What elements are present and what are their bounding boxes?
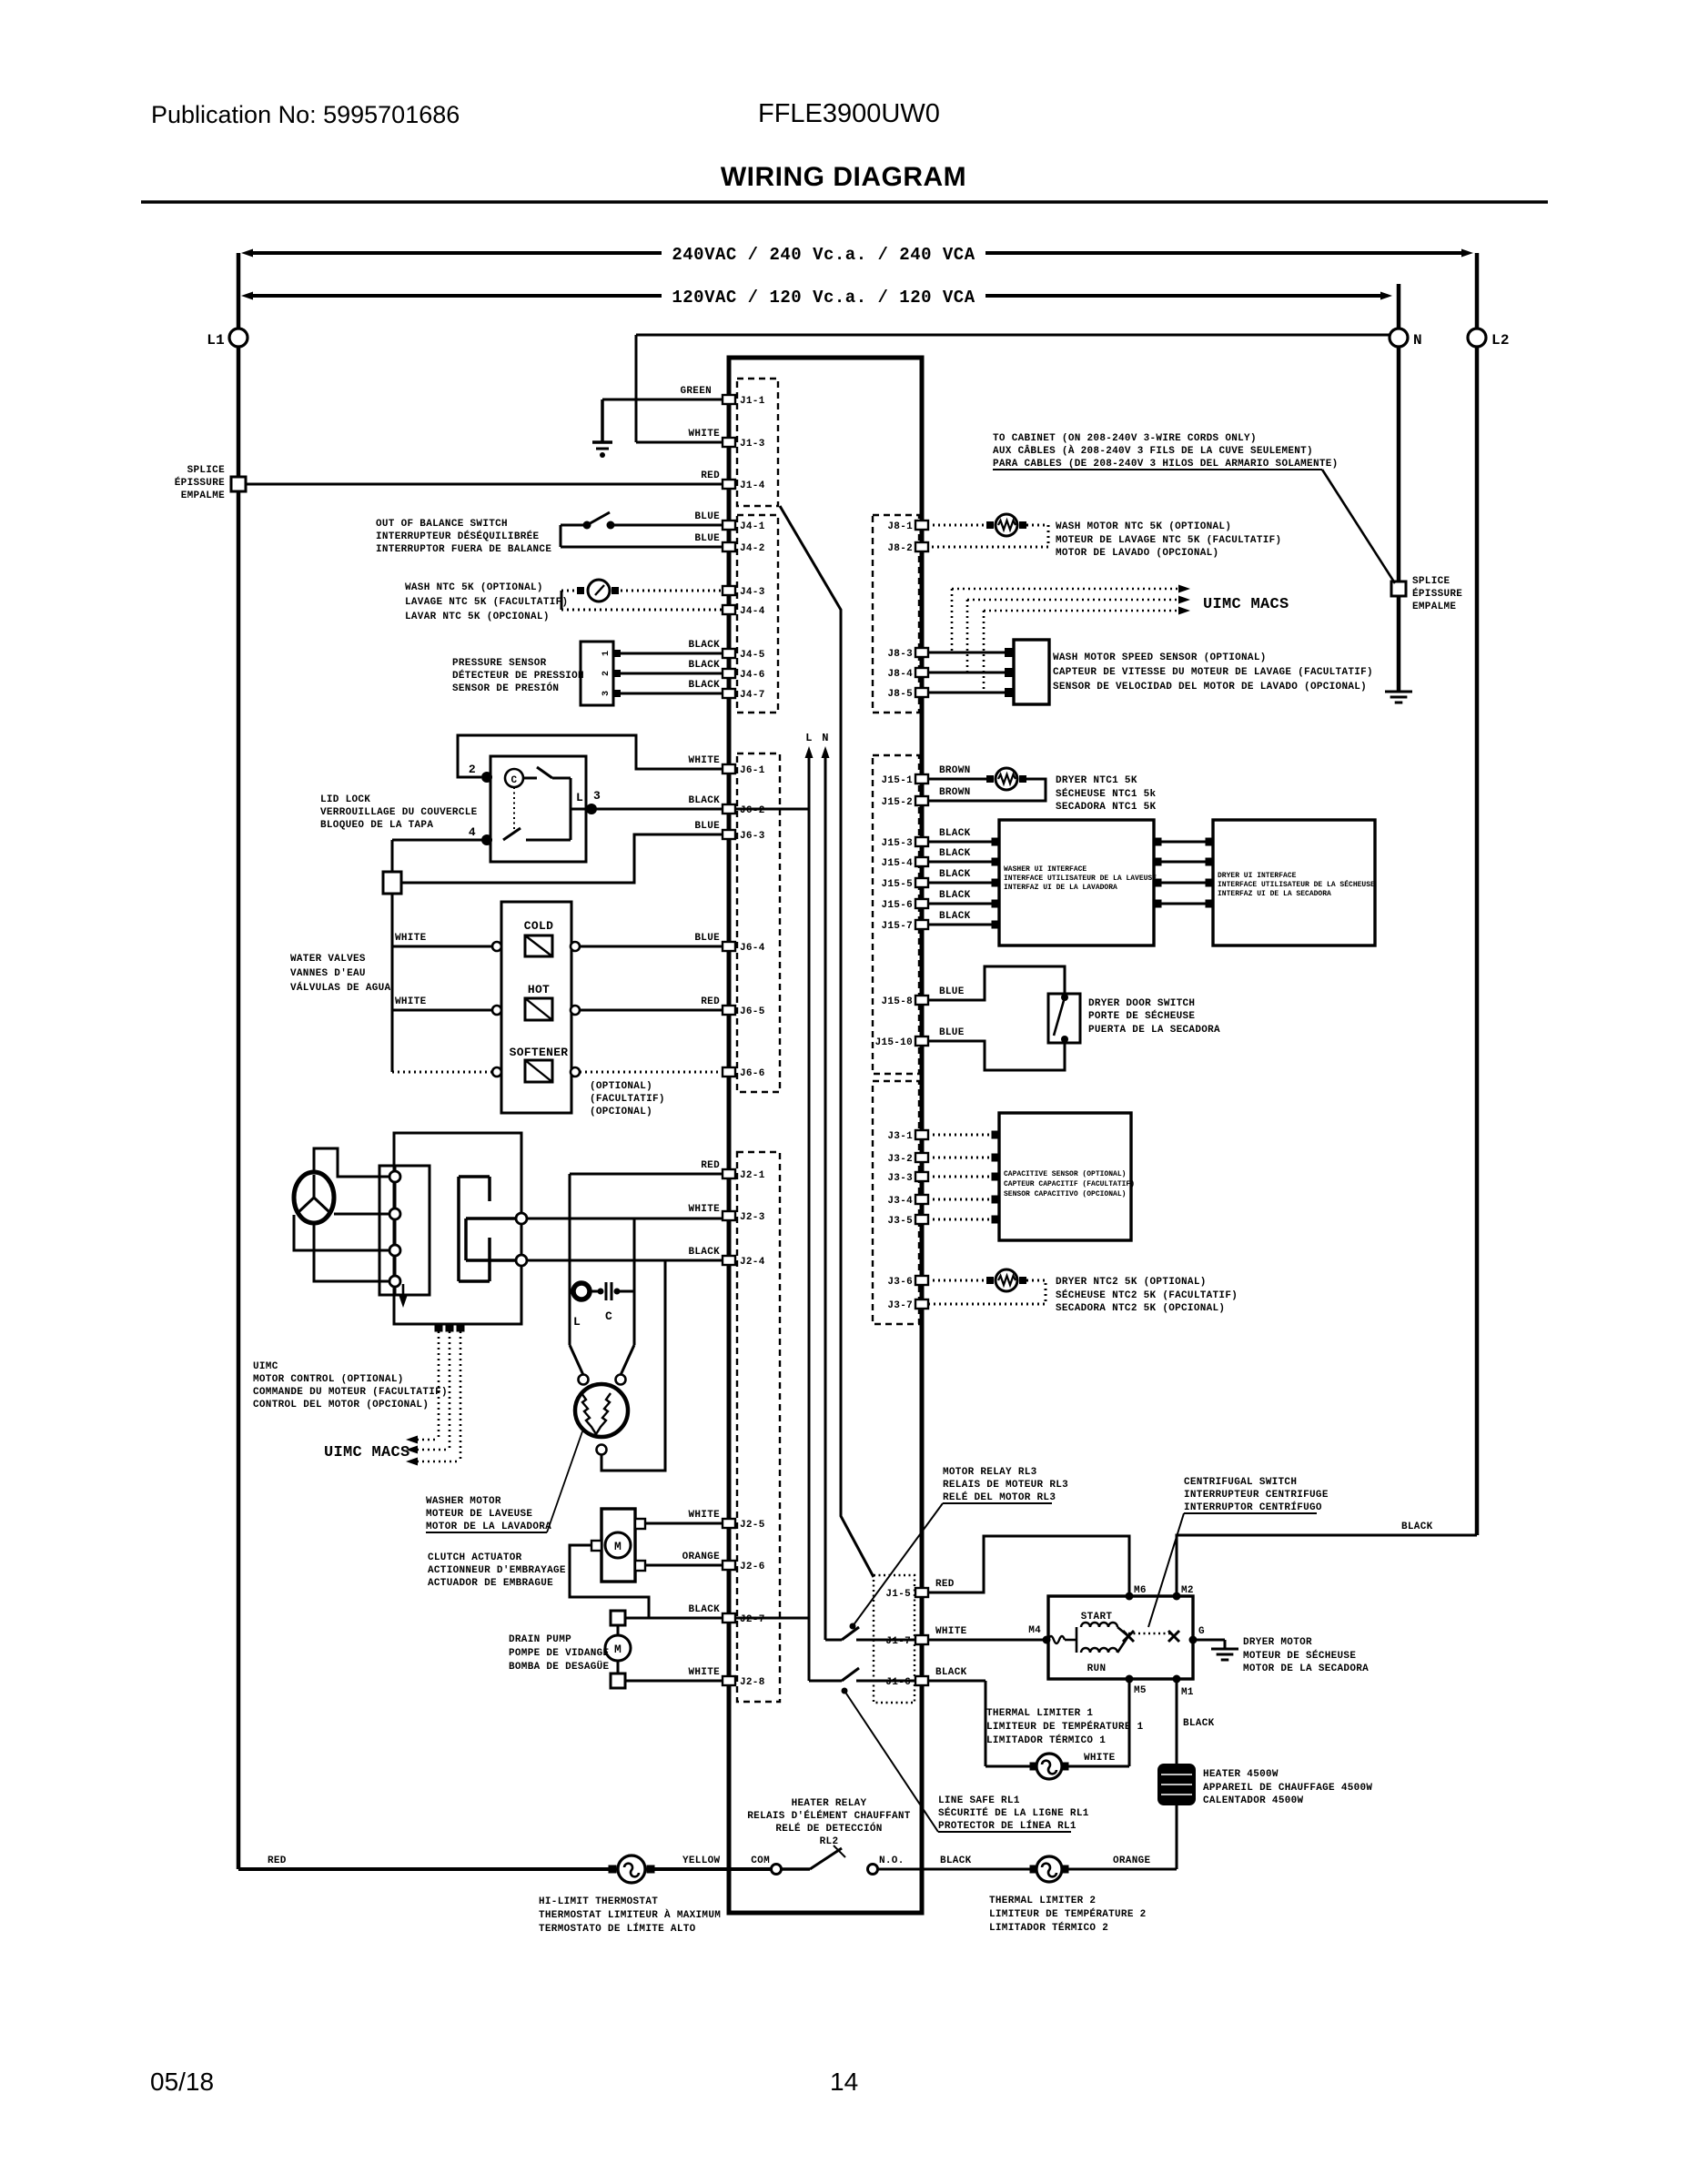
pin J8-2 (915, 542, 928, 551)
svg-text:SECADORA NTC2 5K (OPCIONAL): SECADORA NTC2 5K (OPCIONAL) (1056, 1303, 1225, 1314)
svg-text:WHITE: WHITE (395, 933, 427, 944)
svg-text:INTERRUPTOR CENTRÍFUGO: INTERRUPTOR CENTRÍFUGO (1184, 1501, 1322, 1513)
svg-text:BLACK: BLACK (688, 680, 720, 691)
svg-text:DÉTECTEUR DE PRESSION: DÉTECTEUR DE PRESSION (452, 669, 584, 682)
svg-text:MOTOR DE LA LAVADORA: MOTOR DE LA LAVADORA (426, 1522, 551, 1532)
svg-text:THERMOSTAT LIMITEUR À MAXIMUM: THERMOSTAT LIMITEUR À MAXIMUM (539, 1908, 721, 1921)
svg-text:WHITE: WHITE (688, 429, 720, 440)
svg-text:2: 2 (469, 763, 476, 776)
connector J1 box (737, 379, 778, 506)
connector J3 box (873, 1081, 919, 1324)
svg-text:TERMOSTATO DE LÍMITE ALTO: TERMOSTATO DE LÍMITE ALTO (539, 1922, 696, 1935)
svg-text:J6-5: J6-5 (740, 1006, 765, 1017)
hi-limit thermostat (609, 1865, 617, 1874)
svg-text:TO CABINET (ON 208-240V 3-WIRE: TO CABINET (ON 208-240V 3-WIRE CORDS ONL… (993, 433, 1257, 444)
connector J2 box (737, 1152, 780, 1702)
svg-text:M: M (614, 1643, 622, 1656)
svg-text:PRESSURE SENSOR: PRESSURE SENSOR (452, 658, 547, 669)
svg-text:ORANGE: ORANGE (682, 1552, 721, 1562)
splice square on L1 rail (231, 477, 246, 491)
svg-text:MOTOR RELAY RL3: MOTOR RELAY RL3 (943, 1467, 1037, 1478)
wire RED J2-1 (570, 1173, 723, 1176)
node N line (824, 755, 827, 1640)
svg-text:DRYER DOOR SWITCH: DRYER DOOR SWITCH (1088, 998, 1195, 1009)
svg-text:INTERRUPTOR FUERA DE BALANCE: INTERRUPTOR FUERA DE BALANCE (376, 544, 551, 555)
lid lock terminal 4 (481, 834, 492, 845)
svg-text:PUERTA DE LA SECADORA: PUERTA DE LA SECADORA (1088, 1025, 1220, 1036)
pin J1-7 (915, 1635, 928, 1644)
pin J6-3 (723, 830, 735, 839)
svg-text:MOTOR CONTROL (OPTIONAL): MOTOR CONTROL (OPTIONAL) (253, 1374, 404, 1385)
svg-text:BLUE: BLUE (694, 533, 720, 544)
dryer UI interface box (1213, 820, 1375, 945)
pin J2-8 (723, 1676, 735, 1685)
washer UI interface box (999, 820, 1154, 945)
svg-text:HOT: HOT (528, 983, 550, 996)
svg-text:J1-3: J1-3 (740, 439, 765, 450)
svg-text:BLACK: BLACK (688, 640, 720, 651)
pin J4-2 (723, 542, 735, 551)
svg-text:START: START (1081, 1612, 1113, 1623)
pin J8-4 (915, 668, 928, 677)
svg-text:BLUE: BLUE (694, 933, 720, 944)
svg-text:BLACK: BLACK (940, 1855, 972, 1866)
svg-text:J2-7: J2-7 (740, 1614, 765, 1625)
svg-text:CENTRIFUGAL SWITCH: CENTRIFUGAL SWITCH (1184, 1477, 1297, 1488)
svg-text:PARA CABLES (DE 208-240V 3 HIL: PARA CABLES (DE 208-240V 3 HILOS DEL ARM… (993, 459, 1339, 470)
svg-text:J3-4: J3-4 (887, 1196, 913, 1207)
connector J15 box (873, 755, 919, 1074)
svg-text:WHITE: WHITE (395, 996, 427, 1007)
svg-text:UIMC MACS: UIMC MACS (1203, 596, 1289, 613)
pin J2-7 (723, 1613, 735, 1623)
wire BLUE J15-10 (927, 1041, 1065, 1070)
wire BLACK J1-6 (927, 1680, 986, 1683)
svg-text:J15-3: J15-3 (881, 838, 913, 849)
pin J2-4 (723, 1256, 735, 1265)
washer motor feed right (633, 1218, 636, 1345)
wire to cabinet splice (1322, 470, 1395, 583)
svg-text:RELÉ DEL MOTOR RL3: RELÉ DEL MOTOR RL3 (943, 1491, 1056, 1503)
svg-text:J2-4: J2-4 (740, 1257, 765, 1268)
svg-text:DRYER MOTOR: DRYER MOTOR (1243, 1637, 1312, 1648)
wire M1 down to heater (1176, 1679, 1178, 1764)
connector J8 box (873, 515, 919, 713)
svg-text:BLACK: BLACK (1401, 1522, 1433, 1532)
splice square on N rail (1391, 581, 1406, 596)
svg-text:APPAREIL DE CHAUFFAGE 4500W: APPAREIL DE CHAUFFAGE 4500W (1203, 1783, 1372, 1794)
pin J15-8 (915, 996, 928, 1005)
svg-text:J8-4: J8-4 (887, 669, 913, 680)
svg-text:PORTE DE SÉCHEUSE: PORTE DE SÉCHEUSE (1088, 1009, 1195, 1022)
splice square lid lock (383, 872, 401, 894)
pin J3-3 (915, 1172, 928, 1181)
wash NTC thermistor (588, 580, 610, 602)
svg-text:J4-1: J4-1 (740, 521, 765, 532)
thermal limiter 2 (1030, 1865, 1038, 1874)
pin J6-6 (723, 1067, 735, 1077)
connector J1 right box (874, 1575, 915, 1703)
ground at N rail bottom (1385, 691, 1412, 693)
svg-text:J4-2: J4-2 (740, 543, 765, 554)
wire WHITE J1-7 to M4 (927, 1639, 1046, 1642)
svg-text:WHITE: WHITE (688, 755, 720, 766)
svg-text:1: 1 (601, 651, 612, 656)
wires J3-1..5 to capacitive sensor (927, 1134, 996, 1137)
pin J15-5 (915, 878, 928, 887)
pin J6-4 (723, 942, 735, 951)
pin J4-7 (723, 689, 735, 698)
svg-text:HEATER RELAY: HEATER RELAY (792, 1798, 867, 1809)
svg-text:SENSOR DE VELOCIDAD DEL MOTOR: SENSOR DE VELOCIDAD DEL MOTOR DE LAVADO … (1053, 682, 1367, 693)
water valves feed vertical (391, 840, 394, 872)
wire WHITE J2-3 (527, 1218, 723, 1220)
svg-text:ÉPISSURE: ÉPISSURE (175, 476, 225, 489)
title rule line (141, 200, 1548, 204)
wire washer motor to J2-4 (601, 1260, 665, 1471)
svg-text:BLACK: BLACK (939, 848, 971, 859)
motor hand symbol (294, 1172, 334, 1223)
svg-text:J8-5: J8-5 (887, 689, 913, 700)
svg-text:BROWN: BROWN (939, 787, 971, 798)
svg-text:UIMC MACS: UIMC MACS (324, 1444, 410, 1461)
svg-text:INTERFAZ UI DE LA SECADORA: INTERFAZ UI DE LA SECADORA (1218, 890, 1331, 898)
svg-text:3: 3 (601, 691, 612, 696)
pin J3-2 (915, 1153, 928, 1162)
svg-text:L: L (805, 732, 813, 744)
wire RED J1-5 to M6 (927, 1536, 1129, 1596)
svg-text:LIMITADOR TÉRMICO 1: LIMITADOR TÉRMICO 1 (986, 1734, 1106, 1746)
svg-text:J3-7: J3-7 (887, 1300, 913, 1311)
svg-text:PROTECTOR DE LÍNEA RL1: PROTECTOR DE LÍNEA RL1 (938, 1819, 1076, 1832)
lid lock top contact (523, 777, 537, 780)
pin J4-5 (723, 649, 735, 658)
svg-text:RELAIS DE MOTEUR RL3: RELAIS DE MOTEUR RL3 (943, 1480, 1068, 1491)
lid lock solenoid C (505, 769, 523, 787)
svg-text:RED: RED (935, 1579, 955, 1590)
svg-text:J15-8: J15-8 (881, 996, 913, 1007)
pin J15-10 (915, 1036, 928, 1046)
svg-text:VANNES D'EAU: VANNES D'EAU (290, 968, 366, 979)
washer motor (579, 1375, 589, 1385)
svg-text:SÉCHEUSE NTC1 5k: SÉCHEUSE NTC1 5k (1056, 787, 1157, 800)
terminal circle L1 (229, 329, 248, 347)
svg-text:INTERFAZ UI DE LA LAVADORA: INTERFAZ UI DE LA LAVADORA (1004, 884, 1117, 892)
connector J6 box (737, 753, 780, 1092)
wire BLACK J2-7 (625, 1617, 723, 1620)
svg-text:L1: L1 (207, 332, 225, 349)
capacitor C (598, 1289, 604, 1295)
svg-text:RELAIS D'ÉLÉMENT CHAUFFANT: RELAIS D'ÉLÉMENT CHAUFFANT (747, 1809, 911, 1822)
pin J1-6 (915, 1676, 928, 1685)
svg-text:240VAC / 240 Vc.a. / 240 VCA: 240VAC / 240 Vc.a. / 240 VCA (672, 245, 975, 265)
wire GREEN J1-1 (602, 399, 723, 401)
lid lock terminal 2 (481, 772, 492, 783)
svg-text:J1-7: J1-7 (885, 1636, 911, 1647)
bottom bus wire RED (238, 1867, 616, 1871)
svg-text:G: G (1198, 1626, 1205, 1637)
wire M5 down (1128, 1679, 1131, 1766)
svg-text:WASH NTC 5K (OPTIONAL): WASH NTC 5K (OPTIONAL) (405, 582, 543, 593)
svg-text:J8-3: J8-3 (887, 649, 913, 660)
svg-text:BLACK: BLACK (688, 1604, 720, 1615)
svg-text:J3-3: J3-3 (887, 1173, 913, 1184)
svg-text:MOTOR DE LA SECADORA: MOTOR DE LA SECADORA (1243, 1663, 1369, 1674)
svg-text:WASH MOTOR SPEED SENSOR (OPTIO: WASH MOTOR SPEED SENSOR (OPTIONAL) (1053, 652, 1267, 663)
svg-text:HEATER 4500W: HEATER 4500W (1203, 1769, 1279, 1780)
pin J1-1 (723, 395, 735, 404)
svg-text:(OPTIONAL): (OPTIONAL) (590, 1081, 652, 1092)
svg-text:SÉCHEUSE NTC2 5K (FACULTATIF): SÉCHEUSE NTC2 5K (FACULTATIF) (1056, 1289, 1238, 1301)
svg-text:BLACK: BLACK (939, 911, 971, 922)
pin J2-3 (723, 1211, 735, 1220)
svg-text:ACTIONNEUR D'EMBRAYAGE: ACTIONNEUR D'EMBRAYAGE (428, 1565, 566, 1576)
wire WHITE J1-3 to neutral (636, 441, 723, 444)
pin J6-5 (723, 1006, 735, 1015)
wire clutch to J2-7 (570, 1545, 649, 1618)
svg-text:SENSOR CAPACITIVO (OPCIONAL): SENSOR CAPACITIVO (OPCIONAL) (1004, 1190, 1126, 1198)
svg-text:J4-4: J4-4 (740, 606, 765, 617)
svg-text:M1: M1 (1181, 1687, 1194, 1698)
svg-text:L: L (573, 1315, 581, 1329)
svg-text:J6-2: J6-2 (740, 805, 765, 816)
svg-text:LAVAGE NTC 5K (FACULTATIF): LAVAGE NTC 5K (FACULTATIF) (405, 597, 568, 608)
svg-text:C: C (605, 1309, 612, 1323)
terminal circle L2 (1468, 329, 1486, 347)
pin J15-2 (915, 796, 928, 805)
wire heater to thermal limiter 2 (1176, 1805, 1178, 1869)
pin J8-1 (915, 521, 928, 530)
svg-text:EMPALME: EMPALME (181, 490, 225, 501)
wire WHITE J6-1 lid lock loop (458, 735, 723, 777)
svg-text:BLACK: BLACK (688, 795, 720, 806)
svg-text:CLUTCH ACTUATOR: CLUTCH ACTUATOR (428, 1552, 522, 1563)
svg-text:J15-1: J15-1 (881, 775, 913, 786)
drain pump (611, 1611, 625, 1625)
svg-text:MOTEUR DE LAVEUSE: MOTEUR DE LAVEUSE (426, 1509, 532, 1520)
board internal line J1-4 to J1-5 (780, 506, 874, 1577)
wire softener valve (392, 1071, 492, 1074)
svg-text:MOTEUR DE LAVAGE NTC 5K (FACUL: MOTEUR DE LAVAGE NTC 5K (FACULTATIF) (1056, 535, 1281, 546)
pin J3-7 (915, 1299, 928, 1309)
svg-text:LIMITADOR TÉRMICO 2: LIMITADOR TÉRMICO 2 (989, 1921, 1108, 1934)
pin J15-1 (915, 774, 928, 784)
thermal limiter 1 (986, 1765, 1030, 1768)
pin J15-6 (915, 899, 928, 908)
svg-text:J6-1: J6-1 (740, 765, 765, 776)
svg-text:J2-5: J2-5 (740, 1520, 765, 1531)
pin J4-1 (723, 521, 735, 530)
ground at J1-1 green wire (601, 399, 604, 441)
svg-text:BLACK: BLACK (939, 869, 971, 880)
svg-text:J1-1: J1-1 (740, 396, 765, 407)
pin J1-4 (723, 480, 735, 489)
svg-text:BLUE: BLUE (939, 986, 965, 997)
svg-text:BLACK: BLACK (688, 660, 720, 671)
svg-text:RED: RED (701, 1160, 720, 1171)
wire ORANGE J2-6 (645, 1564, 723, 1567)
dryer motor box (1048, 1596, 1193, 1679)
pin J2-6 (723, 1561, 735, 1570)
relay RL1 contact at J1-6 (809, 1680, 842, 1683)
pin J6-1 (723, 764, 735, 773)
svg-text:WHITE: WHITE (1084, 1753, 1116, 1764)
centrifugal switch contact 1 (1117, 1627, 1128, 1636)
svg-text:COMMANDE DU MOTEUR (FACULTATIF: COMMANDE DU MOTEUR (FACULTATIF) (253, 1387, 448, 1398)
UIMC pin4 arrow (402, 1284, 405, 1299)
svg-text:WASHER UI INTERFACE: WASHER UI INTERFACE (1004, 865, 1087, 874)
svg-text:BLACK: BLACK (688, 1247, 720, 1258)
wires washer UI to dryer UI (1154, 838, 1162, 846)
svg-text:DRAIN PUMP: DRAIN PUMP (509, 1634, 571, 1645)
centrifugal switch contact 2 (1168, 1631, 1179, 1642)
svg-text:J4-5: J4-5 (740, 650, 765, 661)
svg-text:BLACK: BLACK (935, 1667, 967, 1678)
svg-text:RUN: RUN (1087, 1663, 1107, 1674)
wire WHITE J2-8 (625, 1680, 723, 1683)
svg-text:COLD: COLD (524, 919, 553, 933)
svg-text:RL2: RL2 (820, 1836, 839, 1847)
pin J8-5 (915, 688, 928, 697)
svg-text:120VAC / 120 Vc.a. / 120 VCA: 120VAC / 120 Vc.a. / 120 VCA (672, 288, 975, 308)
wire cold valve (392, 945, 492, 948)
svg-text:J6-6: J6-6 (740, 1068, 765, 1079)
wire J6-2 internal to L (734, 808, 809, 811)
node L line (808, 755, 811, 1681)
control board outline (729, 358, 922, 1913)
pin J3-5 (915, 1215, 928, 1224)
svg-text:ÉPISSURE: ÉPISSURE (1412, 587, 1462, 600)
svg-text:LINE SAFE RL1: LINE SAFE RL1 (938, 1795, 1020, 1806)
svg-text:4: 4 (469, 825, 476, 839)
svg-text:N: N (1413, 332, 1422, 349)
svg-text:J6-3: J6-3 (740, 831, 765, 842)
svg-text:BLACK: BLACK (939, 890, 971, 901)
svg-text:(OPCIONAL): (OPCIONAL) (590, 1107, 652, 1117)
svg-text:LID LOCK: LID LOCK (320, 794, 370, 805)
pin J4-4 (723, 605, 735, 614)
relay RL3 contact at J1-7 (825, 1639, 842, 1642)
svg-text:SOFTENER: SOFTENER (510, 1046, 569, 1059)
pin J3-1 (915, 1130, 928, 1139)
svg-text:J3-1: J3-1 (887, 1131, 913, 1142)
svg-text:(FACULTATIF): (FACULTATIF) (590, 1094, 665, 1105)
pin J3-6 (915, 1276, 928, 1285)
dryer motor start winding (1048, 1636, 1065, 1643)
pin J4-3 (723, 586, 735, 595)
wire BLACK J2-4 (526, 1259, 723, 1262)
svg-text:RED: RED (701, 470, 720, 481)
svg-text:LIMITEUR DE TEMPÉRATURE 2: LIMITEUR DE TEMPÉRATURE 2 (989, 1907, 1147, 1920)
svg-text:J15-7: J15-7 (881, 921, 913, 932)
svg-text:OUT OF BALANCE SWITCH: OUT OF BALANCE SWITCH (376, 519, 508, 530)
svg-text:2: 2 (601, 671, 612, 676)
svg-text:J1-6: J1-6 (885, 1677, 911, 1688)
svg-text:LAVAR NTC 5K (OPCIONAL): LAVAR NTC 5K (OPCIONAL) (405, 612, 550, 622)
wash motor NTC thermistor (927, 524, 986, 527)
svg-text:J15-2: J15-2 (881, 797, 913, 808)
svg-text:THERMAL LIMITER 2: THERMAL LIMITER 2 (989, 1896, 1096, 1906)
rail L2 (1475, 253, 1480, 329)
svg-text:BROWN: BROWN (939, 765, 971, 776)
svg-text:WATER VALVES: WATER VALVES (290, 954, 366, 965)
UIMC MACS arrows left (435, 1324, 443, 1332)
svg-text:SECADORA NTC1 5K: SECADORA NTC1 5K (1056, 802, 1157, 813)
svg-text:DRYER UI INTERFACE: DRYER UI INTERFACE (1218, 872, 1297, 880)
svg-text:J3-2: J3-2 (887, 1154, 913, 1165)
terminal G (1189, 1636, 1198, 1644)
svg-text:BLACK: BLACK (939, 828, 971, 839)
wire WHITE J2-5 (645, 1522, 723, 1525)
svg-text:INTERRUPTEUR CENTRIFUGE: INTERRUPTEUR CENTRIFUGE (1184, 1490, 1329, 1501)
svg-text:J4-6: J4-6 (740, 670, 765, 681)
svg-text:J2-6: J2-6 (740, 1562, 765, 1572)
svg-text:M2: M2 (1181, 1585, 1194, 1596)
svg-text:J8-1: J8-1 (887, 521, 913, 532)
dryer NTC1 thermistor (927, 778, 986, 781)
svg-text:M5: M5 (1134, 1685, 1147, 1696)
pin J2-1 (723, 1169, 735, 1178)
pin J3-4 (915, 1195, 928, 1204)
svg-text:MOTEUR DE SÉCHEUSE: MOTEUR DE SÉCHEUSE (1243, 1649, 1356, 1662)
svg-text:CAPTEUR CAPACITIF (FACULTATIF): CAPTEUR CAPACITIF (FACULTATIF) (1004, 1180, 1135, 1188)
svg-text:C: C (511, 775, 518, 786)
heater 4500W (1157, 1764, 1196, 1805)
svg-text:UIMC: UIMC (253, 1361, 278, 1372)
UIMC connector strip (379, 1166, 430, 1295)
svg-text:J1-4: J1-4 (740, 480, 765, 491)
svg-text:INTERRUPTEUR DÉSÉQUILIBRÉE: INTERRUPTEUR DÉSÉQUILIBRÉE (376, 530, 540, 542)
svg-text:GREEN: GREEN (680, 386, 712, 397)
svg-text:J6-4: J6-4 (740, 943, 765, 954)
centrifugal switch link (1128, 1633, 1173, 1634)
svg-text:FFLE3900UW0: FFLE3900UW0 (758, 99, 940, 128)
dryer door switch (1048, 994, 1080, 1043)
svg-text:CAPTEUR DE VITESSE DU MOTEUR D: CAPTEUR DE VITESSE DU MOTEUR DE LAVAGE (… (1053, 667, 1373, 678)
connector J4 box (737, 515, 778, 713)
svg-text:BLUE: BLUE (694, 511, 720, 522)
svg-text:J2-1: J2-1 (740, 1170, 765, 1181)
svg-text:J1-5: J1-5 (885, 1589, 911, 1600)
svg-text:YELLOW: YELLOW (682, 1855, 721, 1866)
lid lock bottom contact (503, 828, 521, 840)
svg-text:BOMBA DE DESAGÜE: BOMBA DE DESAGÜE (509, 1661, 610, 1673)
svg-text:MOTOR DE LAVADO (OPCIONAL): MOTOR DE LAVADO (OPCIONAL) (1056, 548, 1218, 559)
svg-text:N: N (822, 732, 829, 744)
svg-text:WASHER MOTOR: WASHER MOTOR (426, 1496, 501, 1507)
pin J15-4 (915, 857, 928, 866)
svg-text:CONTROL DEL MOTOR (OPCIONAL): CONTROL DEL MOTOR (OPCIONAL) (253, 1400, 429, 1410)
pressure sensor (581, 642, 613, 705)
svg-text:BLACK: BLACK (1183, 1718, 1215, 1729)
240VAC supply line (248, 251, 662, 255)
svg-text:BLOQUEO DE LA TAPA: BLOQUEO DE LA TAPA (320, 820, 433, 831)
svg-text:05/18: 05/18 (150, 2068, 214, 2096)
120VAC supply line (248, 294, 662, 298)
svg-text:WIRING DIAGRAM: WIRING DIAGRAM (721, 162, 966, 192)
dryer NTC2 thermistor (927, 1279, 986, 1282)
svg-text:SPLICE: SPLICE (1412, 576, 1450, 587)
svg-text:INTERFACE UTILISATEUR DE LA LA: INTERFACE UTILISATEUR DE LA LAVEUSE (1004, 875, 1157, 883)
svg-text:WASH MOTOR NTC 5K (OPTIONAL): WASH MOTOR NTC 5K (OPTIONAL) (1056, 521, 1231, 532)
svg-text:J3-5: J3-5 (887, 1216, 913, 1227)
rail L1 (237, 253, 241, 329)
pin J4-6 (723, 669, 735, 678)
capacitive sensor box (999, 1113, 1131, 1240)
terminal circle N (1390, 329, 1408, 347)
out of balance switch (614, 524, 723, 527)
svg-text:J4-7: J4-7 (740, 690, 765, 701)
